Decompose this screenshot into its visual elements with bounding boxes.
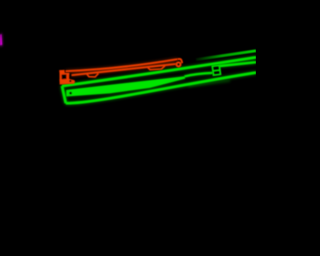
orange rail: top edge: [66, 59, 178, 77]
orange rail: notch 1: [87, 73, 99, 77]
magenta streak glow: [0, 33, 3, 46]
orange bracket: left column: [60, 73, 62, 80]
green rail: top-right edge line T (faint): [196, 51, 256, 60]
orange glow layer: [66, 59, 178, 75]
orange rail: bottom edge: [72, 64, 177, 75]
green rail: bottom edge line: [66, 73, 256, 104]
green rail: back-top edge line B: [62, 51, 256, 103]
green detent box (two cells): [212, 65, 220, 75]
orange bracket: window (black): [62, 74, 67, 79]
black dot hole in band: [69, 92, 72, 95]
orange bracket: top tab: [59, 70, 75, 85]
green faint under-streak: [188, 81, 230, 86]
orange bracket: upper band over window: [60, 73, 70, 75]
orange bracket: black dot: [69, 80, 71, 82]
orange bracket: bottom mass: [59, 79, 75, 85]
magenta streak: [0, 34, 2, 45]
green rail: inner band (filled): [66, 76, 185, 96]
green glow layer: [62, 57, 256, 103]
green rail: left end cap: [62, 86, 66, 103]
orange rail: notch 2: [147, 66, 165, 70]
green rail: box exit line: [220, 62, 256, 66]
green rail: middle connector line M: [185, 73, 213, 77]
orange rail: right hook with ring: [176, 59, 182, 66]
orange bracket: right column: [66, 73, 69, 80]
